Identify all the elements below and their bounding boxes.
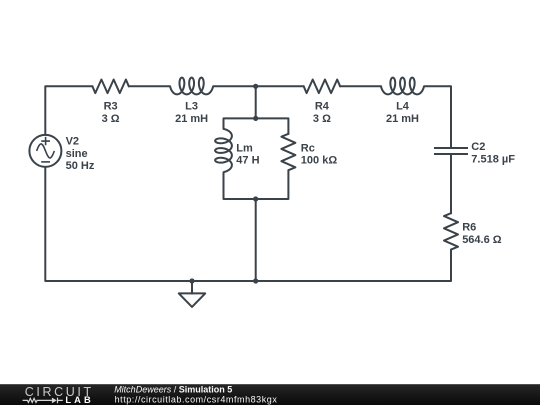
resistor Rc: [281, 134, 295, 170]
node A junction dot: [253, 84, 258, 89]
logo diode: [52, 398, 57, 404]
svg-text:3 Ω: 3 Ω: [102, 113, 120, 125]
wire top-left rail: [45, 86, 92, 135]
wire C2 to R6: [450, 154, 452, 213]
svg-text:http://circuitlab.com/csr4mfmh: http://circuitlab.com/csr4mfmh83kgx: [115, 394, 278, 404]
svg-text:21 mH: 21 mH: [175, 113, 208, 125]
wire node A stub (top rail to parallel box): [255, 86, 257, 118]
ground stub: [191, 281, 193, 294]
wire R6 to bottom rail: [45, 167, 451, 281]
svg-text:Rc: Rc: [301, 142, 315, 154]
wire R3 to L3: [129, 85, 170, 87]
svg-text:564.6 Ω: 564.6 Ω: [462, 234, 502, 246]
svg-text:7.518 µF: 7.518 µF: [471, 153, 515, 165]
junction dot box bottom: [253, 196, 258, 201]
inductor L3: [170, 78, 213, 95]
wire box to bottom rail: [255, 199, 257, 281]
resistor R3: [92, 80, 128, 94]
wire L4 to right corner: [424, 86, 451, 148]
wire parallel box bottom: [224, 170, 289, 199]
junction dot box top: [253, 116, 258, 121]
svg-text:MitchDeweers / Simulation 5: MitchDeweers / Simulation 5: [114, 384, 232, 394]
svg-text:V2: V2: [66, 136, 79, 148]
svg-text:sine: sine: [66, 148, 88, 160]
svg-text:R3: R3: [104, 101, 118, 113]
capacitor C2: [434, 148, 468, 154]
V2 plus sign: [41, 137, 50, 145]
ground symbol: [179, 293, 205, 307]
svg-text:L4: L4: [396, 101, 410, 113]
svg-text:21 mH: 21 mH: [386, 113, 419, 125]
svg-text:100 kΩ: 100 kΩ: [301, 155, 338, 167]
svg-text:Lm: Lm: [236, 142, 253, 154]
resistor R4: [304, 80, 340, 94]
voltage source V2 circle: [29, 135, 61, 167]
svg-text:R6: R6: [462, 222, 476, 234]
svg-text:LAB: LAB: [65, 395, 93, 405]
svg-text:R4: R4: [315, 101, 330, 113]
junction dot ground: [189, 278, 194, 283]
resistor R6: [444, 213, 458, 249]
junction dot bottom rail center: [253, 278, 258, 283]
logo resistor squiggle: [23, 398, 52, 402]
wire L3 to R4 (through node A): [213, 85, 303, 87]
inductor L4: [381, 78, 424, 95]
svg-text:C2: C2: [471, 141, 485, 153]
V2 minus sign: [41, 161, 50, 163]
wire parallel box top: [224, 118, 289, 134]
wire R4 to L4: [340, 85, 381, 87]
svg-text:50 Hz: 50 Hz: [66, 160, 95, 172]
svg-text:L3: L3: [185, 101, 198, 113]
inductor Lm: [215, 129, 232, 172]
svg-text:47 H: 47 H: [236, 155, 259, 167]
V2 sine wave: [37, 144, 55, 158]
svg-text:3 Ω: 3 Ω: [313, 113, 331, 125]
